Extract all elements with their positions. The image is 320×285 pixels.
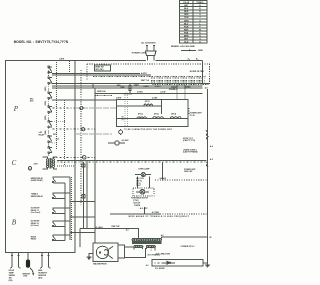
wire legend: [181, 49, 204, 52]
connector tag box: [94, 65, 110, 71]
svg-text:(Con Panel): (Con Panel): [31, 212, 41, 214]
svg-text:MODEL NO. : SMV7Y75,7Y34,7Y7N: MODEL NO. : SMV7Y75,7Y34,7Y7N: [14, 40, 69, 44]
node circle a: [82, 128, 85, 131]
svg-text:(RY-3): (RY-3): [154, 114, 159, 116]
svg-text:PUR: PUR: [184, 26, 189, 28]
svg-text:(RY-4): (RY-4): [171, 113, 176, 116]
wire row y93.3: [95, 92, 203, 94]
svg-text:(RY-1): (RY-1): [145, 101, 150, 103]
bus L1: [75, 59, 203, 61]
svg-text:2: 2: [29, 168, 30, 170]
lower mid line: [110, 213, 160, 215]
power unit box: [117, 100, 188, 127]
svg-text:WATER RELAY: WATER RELAY: [31, 195, 44, 198]
contact S3 wire: [52, 107, 75, 109]
svg-text:A-2, GRY: A-2, GRY: [140, 207, 149, 210]
humidity labels: [38, 269, 48, 280]
turntable motor: [136, 189, 149, 194]
svg-text:PNK: PNK: [184, 32, 189, 34]
svg-text:(CAVITY FRAME): (CAVITY FRAME): [183, 151, 198, 154]
bus corner: [202, 60, 204, 83]
svg-text:F: F: [151, 250, 152, 252]
dashed riser r3: [69, 61, 71, 75]
connector pin ticks: [11, 254, 50, 256]
diode box inner dots: [154, 262, 165, 264]
svg-text:B: B: [12, 219, 17, 227]
svg-text:SYMBOL: SYMBOL: [196, 2, 203, 4]
svg-text:(SW3): (SW3): [45, 115, 47, 120]
svg-text:YLW: YLW: [184, 17, 189, 19]
filament terminal box: [118, 245, 124, 258]
dense wire row 1b: [151, 77, 206, 79]
node circle b: [82, 156, 86, 160]
relay contact S4: [48, 121, 52, 128]
contact S2 wire: [52, 99, 75, 101]
secondary winding HV: [146, 246, 155, 248]
diode junction dot: [169, 262, 171, 264]
lamp texts: [136, 178, 145, 187]
turntable motor box: [133, 188, 154, 196]
magnetron enclosure: [93, 243, 118, 262]
svg-text:150°C: 150°C: [136, 185, 141, 187]
junction dot: [56, 106, 57, 107]
svg-text:A-4,BLU: A-4,BLU: [160, 177, 167, 180]
relay row wires: [58, 177, 71, 241]
svg-text:GRY: GRY: [184, 5, 189, 7]
twist symbol 1: [206, 131, 208, 140]
secondary winding F: [134, 246, 143, 248]
magnetron ground: [87, 254, 93, 260]
svg-text:(SW2): (SW2): [45, 101, 47, 106]
svg-text:P: P: [13, 105, 19, 113]
contact S4 wire: [52, 128, 95, 130]
svg-text:BLU: BLU: [184, 23, 189, 25]
contact S0 wires: [52, 74, 151, 76]
inner riser: [160, 100, 162, 115]
relay contact S0: [48, 66, 52, 73]
dotted link: [75, 133, 112, 135]
dashed riser r2: [63, 100, 65, 166]
svg-text:BLK: BLK: [184, 8, 189, 10]
HV diode box: [152, 260, 203, 266]
svg-text:MAGNETRON: MAGNETRON: [93, 263, 107, 266]
svg-text:BRN: BRN: [184, 35, 189, 37]
svg-text:REMARK : A-B-1-BLK WIRE: REMARK : A-B-1-BLK WIRE: [171, 45, 195, 48]
wire box feed: [75, 99, 117, 101]
svg-text:2-BLK: 2-BLK: [144, 86, 150, 88]
contact S1 wires: [52, 84, 93, 88]
svg-text:SET (NF): SET (NF): [95, 69, 103, 71]
chain link dashes: [48, 68, 50, 157]
svg-text:COLOR: COLOR: [183, 2, 190, 4]
right trunk wire: [207, 89, 209, 264]
svg-text:2-WHT: 2-WHT: [155, 86, 162, 88]
thermal cutout T1: [119, 129, 123, 135]
relay contact S3: [48, 106, 52, 113]
dashed mid line: [155, 179, 206, 181]
svg-text:(OS): (OS): [23, 276, 27, 278]
box exit wires: [70, 202, 95, 233]
door sense labels: [9, 270, 16, 282]
svg-text:GRN: GRN: [184, 20, 189, 22]
relay contact S6: [48, 147, 52, 154]
magnetron: [96, 246, 113, 258]
svg-text:ORG: ORG: [184, 14, 189, 16]
terminal square T1: [82, 164, 85, 167]
svg-text:(H. Panel): (H. Panel): [31, 225, 39, 227]
svg-text:(RY-2): (RY-2): [138, 114, 143, 116]
svg-text:GRN: GRN: [120, 87, 125, 89]
dashed risers: [125, 85, 185, 127]
terminal ticks right edge: [188, 108, 189, 113]
lamp drop wires: [137, 176, 149, 188]
sensor arrow: [30, 268, 33, 274]
svg-text:WHT: WHT: [184, 29, 189, 31]
noise filter chassis dashed box: [87, 64, 210, 85]
svg-text:C: C: [12, 159, 17, 167]
oven lamp: [135, 173, 151, 177]
svg-text:WIRE FM: WIRE FM: [95, 67, 104, 69]
svg-text:OVEN LAMP: OVEN LAMP: [138, 168, 150, 171]
svg-text:TO BE CONNECTED WITH THE POWER: TO BE CONNECTED WITH THE POWER UNIT: [124, 129, 173, 131]
interior dashed stubs: [52, 121, 75, 240]
bus tick labels: [188, 57, 199, 60]
double line mid dotted: [57, 161, 206, 163]
control PCB box: [6, 61, 75, 253]
filament wires: [124, 247, 145, 257]
color code table: [179, 1, 207, 43]
svg-text:RELAY: RELAY: [31, 238, 37, 241]
svg-text:2-ORG: 2-ORG: [152, 98, 158, 100]
svg-text:W: W: [199, 29, 201, 31]
door sense connector: [10, 252, 21, 268]
thermal cutout TC2: [108, 141, 125, 145]
wire labels cluster: [97, 84, 208, 93]
long drop wire: [94, 88, 96, 243]
wire to transformer: [80, 229, 138, 247]
table text: [183, 2, 203, 43]
turntable labels: [131, 197, 149, 207]
svg-text:POWER CORD: POWER CORD: [132, 53, 147, 55]
junction dot: [161, 99, 162, 100]
svg-text:A-7,GRN: A-7,GRN: [152, 211, 160, 214]
svg-text:(SW1): (SW1): [45, 86, 47, 91]
dense wire row 1: [93, 75, 206, 77]
svg-text:: WIRE: : WIRE: [197, 50, 204, 52]
svg-text:A-4: A-4: [210, 145, 213, 148]
chassis dashed left drop: [80, 70, 82, 205]
ground right: [205, 264, 210, 268]
HV transformer primary: [132, 238, 162, 250]
mid drop wire: [83, 162, 85, 229]
circled 2: [28, 167, 31, 170]
svg-text:(DS): (DS): [9, 280, 13, 282]
dense wire row 2b: [151, 81, 206, 83]
svg-text:RED: RED: [184, 11, 189, 13]
dotted feed: [75, 107, 117, 109]
svg-text:(H.V.CAPACITOR): (H.V.CAPACITOR): [156, 252, 171, 255]
double line mid solid: [57, 159, 206, 161]
svg-text:(AH): (AH): [38, 277, 42, 280]
svg-text:WHT 7-A: WHT 7-A: [141, 79, 150, 82]
svg-text:2.5RPM: 2.5RPM: [134, 205, 141, 207]
wire diode to trunk: [203, 262, 208, 264]
svg-text:CORNER OF H.V: CORNER OF H.V: [181, 246, 196, 248]
motor drop lead: [144, 207, 146, 214]
svg-text:RED TOP: RED TOP: [112, 226, 121, 228]
humidity connector: [40, 252, 51, 268]
relay contact S5: [48, 135, 52, 142]
svg-text:H.V. DIODE: H.V. DIODE: [155, 268, 165, 270]
svg-text:RELAY: RELAY: [39, 133, 45, 136]
svg-text:ORG/BLU: ORG/BLU: [169, 89, 178, 91]
mid drop wire 2: [86, 160, 88, 228]
svg-text:GLD: GLD: [184, 41, 189, 43]
svg-text:NOISE FILTER: NOISE FILTER: [190, 71, 204, 73]
svg-text:P.C.B.: P.C.B.: [190, 115, 196, 117]
twist symbol 2: [206, 162, 208, 167]
svg-text:GRD CAP: GRD CAP: [184, 170, 193, 173]
svg-text:(CAVITY TCO): (CAVITY TCO): [183, 139, 195, 142]
junction dot 2: [64, 121, 65, 122]
terminal square T2: [82, 195, 85, 198]
contact S6 wire: [52, 156, 95, 158]
wire row y85.9: [93, 85, 203, 87]
svg-text:WIRE AHEAD OF TRIANGLE IS HIGH: WIRE AHEAD OF TRIANGLE IS HIGH FREQUENCY: [129, 215, 190, 218]
HV diode: [162, 261, 175, 264]
junction dots y93: [125, 93, 126, 94]
svg-text:(LAMP RELAY): (LAMP RELAY): [31, 179, 43, 182]
relay contact S2: [48, 92, 52, 99]
transformer core: [132, 241, 162, 243]
svg-text:SKY: SKY: [184, 38, 189, 40]
LV transformer: [43, 157, 57, 169]
svg-text:A-2,WHT: A-2,WHT: [122, 139, 130, 142]
svg-text:5-RED: 5-RED: [185, 86, 191, 88]
relay contact S1: [48, 77, 52, 84]
svg-text:A-4: A-4: [210, 158, 213, 161]
svg-text:1-BLK: 1-BLK: [134, 84, 140, 86]
fuse F1: [129, 84, 131, 94]
svg-text:4F: 4F: [210, 236, 212, 239]
svg-text:3-BLU: 3-BLU: [171, 86, 177, 88]
left join: [92, 84, 94, 88]
dashed riser r1: [55, 62, 57, 150]
svg-text:AC 120V/60Hz: AC 120V/60Hz: [141, 41, 156, 44]
wire row y87.8: [93, 87, 203, 89]
power plug: [145, 45, 156, 60]
wire row y83.7: [93, 83, 209, 85]
drop wire: [161, 162, 163, 180]
wire trans to trunk: [162, 237, 208, 238]
dense stub y95.4: [96, 94, 112, 96]
dense wire row 2: [151, 80, 206, 82]
node circle c: [80, 107, 83, 110]
junction dot: [94, 92, 95, 93]
thermistor sensor: [27, 252, 29, 259]
